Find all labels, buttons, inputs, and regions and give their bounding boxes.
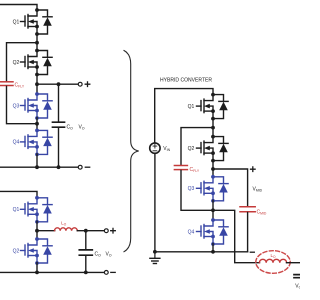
transistor Q2 [21,49,53,77]
node CFLY bottom [35,122,39,126]
wire ground rail circuit3 [155,251,248,253]
transistor Q4 circuit3 [197,218,229,246]
svg-text:Q1: Q1 [13,19,20,25]
svg-text:LO: LO [61,221,67,227]
wire top rail circuit3 [155,89,213,143]
wire Q1 source to Q2 drain [36,34,38,51]
svg-text:CO: CO [67,124,74,130]
wire VMID branch [213,169,248,206]
node CO bottom circuit1 [57,165,61,169]
capacitor CO circuit2 [85,231,87,249]
wire CFLY bottom to Q3/Q4 node circuit3 [181,170,213,210]
svg-text:Q2: Q2 [188,146,195,152]
wire Q4 source to ground rail [212,244,214,252]
capacitor CO circuit1 [58,84,60,121]
wire Q2 source to VMID node to Q3 drain [212,160,214,177]
svg-text:Q1: Q1 [188,104,195,110]
svg-text:Q2: Q2 [13,248,20,254]
svg-text:Q4: Q4 [13,140,20,146]
svg-text:Q3: Q3 [13,103,20,109]
highlight ellipse around LO [256,251,290,274]
wire VOUT to inductor [213,210,260,262]
svg-text:Q2: Q2 [13,60,20,66]
node ground rail [153,250,157,254]
wire CFLY top branch circuit3 [181,128,213,165]
wire Q3 source to Q4 drain circuit3 [212,200,214,220]
svg-text:CMID: CMID [257,209,267,215]
svg-text:VIN: VIN [163,146,170,152]
node VMID [211,167,215,171]
node CFLY top branch [35,41,39,45]
ground [150,252,160,264]
node CO top circuit2 [84,229,88,233]
capacitor CMID [240,207,255,212]
terminal minus circuit1 [78,165,82,169]
node CO top circuit1 [57,82,61,86]
svg-text:VO: VO [79,124,85,130]
wire Q3 source to Q4 drain [36,118,38,131]
svg-text:CO: CO [95,252,102,258]
capacitor CFLY circuit3 [174,166,187,170]
wire inductor to output circuit2 [77,230,104,232]
terminal plus circuit1 [78,82,82,86]
wire Q2 source to output node to Q3 drain [36,74,38,94]
transistor Q1 circuit2 [21,196,53,224]
transistor Q2 circuit3 [197,135,229,163]
wire top rail circuit2 [0,191,37,197]
wire to inductor circuit2 [37,230,55,232]
transistor Q1 [21,8,53,36]
svg-text:CFLY: CFLY [190,167,200,173]
wire inductor to right edge [287,262,301,264]
inductor LO circuit3 [259,259,286,262]
wire Q2 source to bottom rail circuit2 [36,263,38,273]
svg-text:HYBRID CONVERTER: HYBRID CONVERTER [160,78,212,84]
wire top rail circuit1 [0,5,37,11]
wire output plus circuit1 [37,83,78,85]
svg-text:VO: VO [295,284,300,290]
svg-text:Q4: Q4 [188,229,195,235]
node VOUT circuit3 [211,208,215,212]
wire CFLY bottom to Q3/Q4 node [7,86,38,123]
wire Q4 source to bottom rail [36,154,38,167]
node Q2 bottom rail circuit2 [35,271,39,275]
wire bottom rail circuit1 [0,166,78,168]
inductor LO circuit2 [55,228,78,231]
transistor Q4 [21,129,53,157]
node Q4 bottom rail [35,165,39,169]
node CO bottom circuit2 [84,271,88,275]
terminal minus circuit2 [104,271,108,275]
transistor Q3 circuit3 [197,175,229,203]
svg-text:LO: LO [270,253,276,259]
transistor Q3 [21,92,53,120]
transistor Q1 circuit3 [197,93,229,121]
svg-text:VMID: VMID [253,186,263,192]
capacitor CFLY [0,82,13,86]
svg-text:VO: VO [106,252,112,258]
node inductor branch circuit2 [35,229,39,233]
source VIN [150,143,160,153]
wire CFLY top branch [7,43,38,81]
transistor Q2 circuit2 [21,237,53,265]
svg-text:Q1: Q1 [13,207,20,213]
wire Q1 source to Q2 drain circuit2 [36,221,38,239]
wire CMID bottom to ground rail [247,213,249,252]
svg-text:Q3: Q3 [188,186,195,192]
svg-text:CFLY: CFLY [15,83,25,89]
node Q4 ground rail [211,250,215,254]
brace [124,51,139,252]
node CFLY top circuit3 [211,126,215,130]
wire bottom rail circuit2 [0,271,105,273]
capacitor CO circuit3 cut at edge [294,275,300,278]
node output plus circuit1 [35,82,39,86]
wire Q1 source to Q2 drain circuit3 [212,118,214,137]
wire VIN to ground [154,153,156,252]
terminal plus circuit2 [104,229,108,233]
